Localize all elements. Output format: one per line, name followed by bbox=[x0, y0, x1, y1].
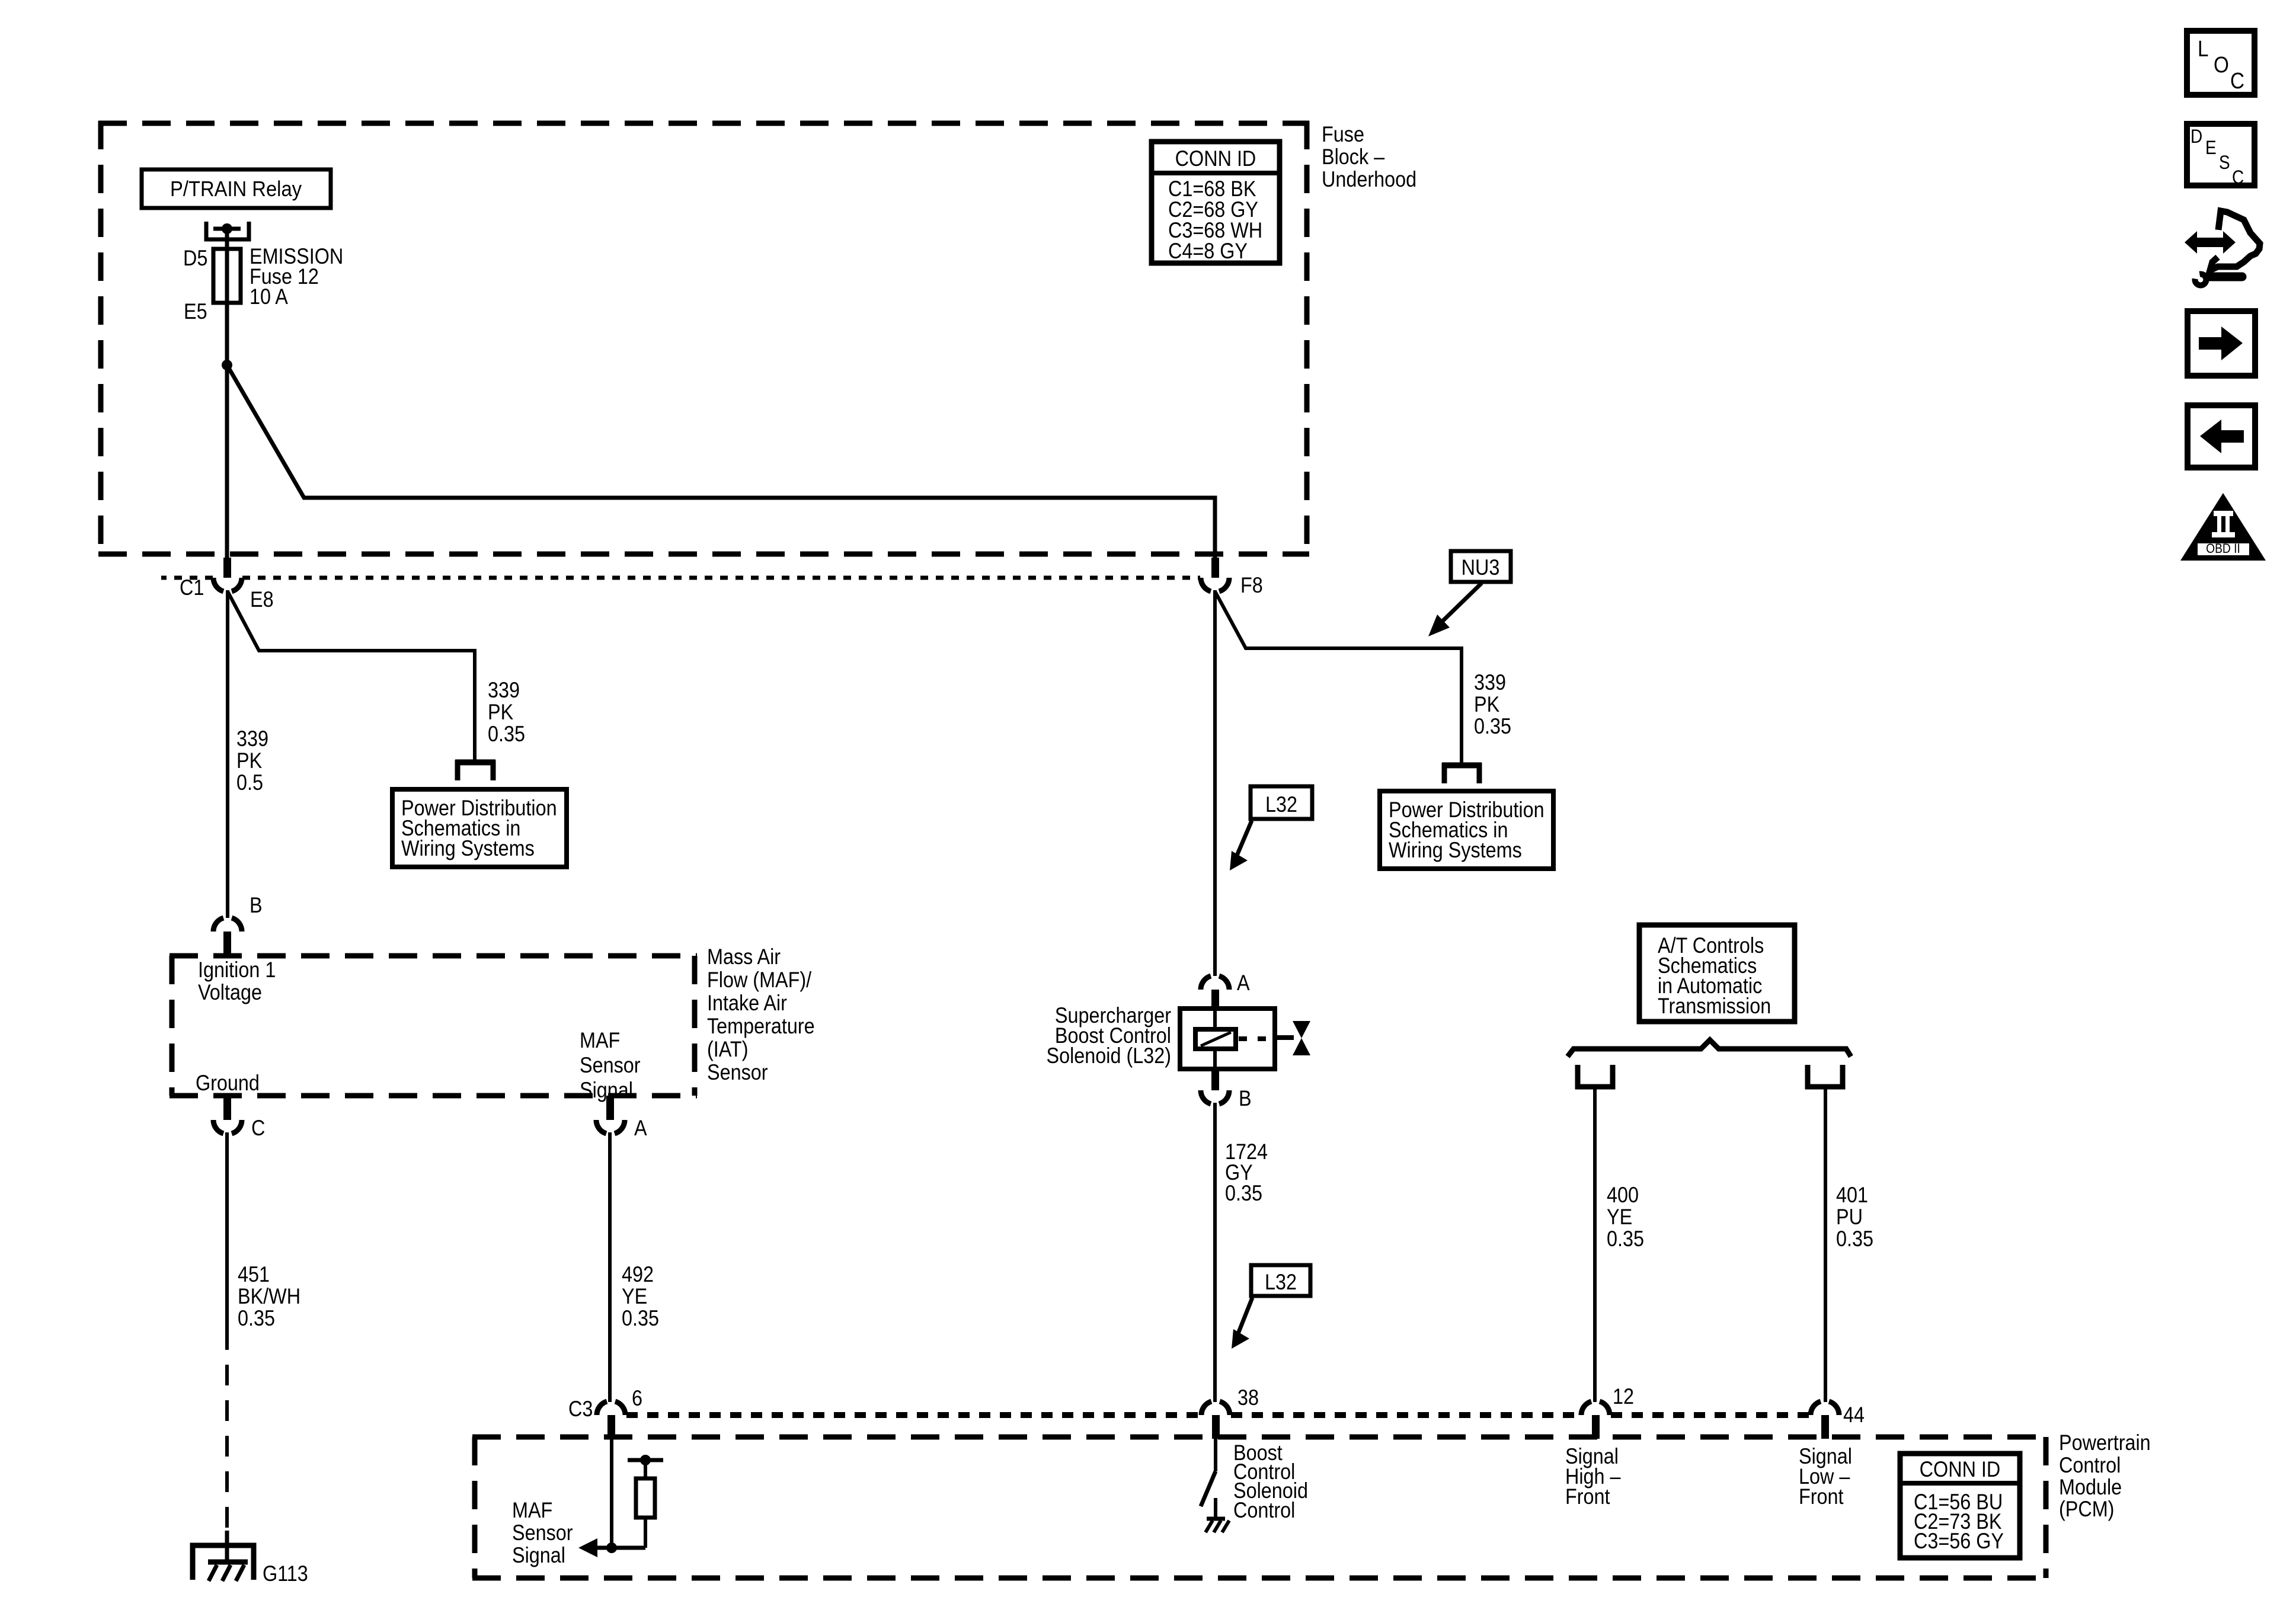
svg-text:Solenoid (L32): Solenoid (L32) bbox=[1047, 1044, 1171, 1068]
svg-text:NU3: NU3 bbox=[1462, 556, 1500, 580]
svg-text:Fuse: Fuse bbox=[1322, 123, 1364, 146]
svg-text:C3=56 GY: C3=56 GY bbox=[1914, 1529, 2004, 1553]
svg-text:401: 401 bbox=[1836, 1183, 1868, 1207]
svg-text:BK/WH: BK/WH bbox=[238, 1285, 300, 1308]
svg-text:Block –: Block – bbox=[1322, 145, 1385, 169]
svg-text:Signal: Signal bbox=[512, 1544, 565, 1567]
svg-text:Signal: Signal bbox=[580, 1078, 633, 1102]
svg-text:0.35: 0.35 bbox=[1607, 1227, 1644, 1251]
svg-text:S: S bbox=[2219, 152, 2230, 173]
svg-text:44: 44 bbox=[1843, 1403, 1865, 1427]
svg-text:E8: E8 bbox=[250, 588, 274, 612]
svg-text:Underhood: Underhood bbox=[1322, 168, 1416, 191]
svg-text:Front: Front bbox=[1565, 1485, 1610, 1509]
svg-text:B: B bbox=[1239, 1087, 1252, 1110]
svg-text:MAF: MAF bbox=[580, 1029, 620, 1052]
svg-text:CONN ID: CONN ID bbox=[1920, 1458, 2001, 1481]
svg-text:P/TRAIN Relay: P/TRAIN Relay bbox=[170, 178, 302, 201]
svg-text:38: 38 bbox=[1237, 1386, 1259, 1410]
svg-text:339: 339 bbox=[488, 678, 520, 702]
svg-text:MAF: MAF bbox=[512, 1499, 552, 1522]
svg-text:0.35: 0.35 bbox=[488, 722, 525, 746]
svg-text:Flow (MAF)/: Flow (MAF)/ bbox=[707, 968, 811, 992]
svg-text:0.35: 0.35 bbox=[1474, 715, 1511, 738]
svg-text:D5: D5 bbox=[183, 247, 207, 270]
svg-text:Wiring Systems: Wiring Systems bbox=[1389, 838, 1522, 862]
svg-text:PK: PK bbox=[488, 700, 513, 724]
svg-text:400: 400 bbox=[1607, 1183, 1639, 1207]
svg-text:12: 12 bbox=[1613, 1385, 1634, 1409]
svg-text:A: A bbox=[634, 1116, 647, 1140]
svg-text:Module: Module bbox=[2059, 1475, 2122, 1499]
svg-text:Control: Control bbox=[1233, 1499, 1295, 1522]
svg-text:0.5: 0.5 bbox=[236, 771, 263, 795]
svg-text:C: C bbox=[2230, 68, 2244, 94]
svg-text:YE: YE bbox=[1607, 1205, 1632, 1229]
svg-text:0.35: 0.35 bbox=[1836, 1227, 1873, 1251]
svg-text:D: D bbox=[2191, 126, 2202, 147]
svg-text:339: 339 bbox=[236, 727, 268, 751]
svg-text:C1: C1 bbox=[180, 576, 204, 600]
svg-text:(IAT): (IAT) bbox=[707, 1038, 748, 1061]
svg-text:Ignition 1: Ignition 1 bbox=[198, 958, 276, 982]
svg-text:E: E bbox=[2205, 137, 2217, 158]
svg-text:Front: Front bbox=[1799, 1485, 1844, 1509]
svg-text:C3: C3 bbox=[568, 1397, 593, 1421]
svg-text:E5: E5 bbox=[184, 300, 207, 324]
svg-text:A: A bbox=[1237, 971, 1250, 995]
svg-text:Wiring Systems: Wiring Systems bbox=[401, 837, 535, 860]
svg-text:O: O bbox=[2214, 52, 2229, 78]
svg-text:C: C bbox=[2232, 167, 2244, 188]
svg-text:451: 451 bbox=[238, 1263, 270, 1286]
svg-text:Temperature: Temperature bbox=[707, 1014, 815, 1038]
svg-text:Sensor: Sensor bbox=[512, 1521, 573, 1545]
svg-text:PK: PK bbox=[1474, 693, 1499, 716]
svg-text:B: B bbox=[250, 894, 263, 917]
svg-text:Transmission: Transmission bbox=[1658, 994, 1771, 1018]
svg-text:492: 492 bbox=[622, 1263, 654, 1286]
svg-text:0.35: 0.35 bbox=[622, 1307, 659, 1330]
svg-text:C: C bbox=[251, 1116, 265, 1140]
svg-text:Voltage: Voltage bbox=[198, 981, 262, 1004]
svg-text:G113: G113 bbox=[263, 1562, 308, 1586]
svg-text:(PCM): (PCM) bbox=[2059, 1497, 2114, 1521]
svg-text:PK: PK bbox=[236, 749, 262, 773]
svg-text:L32: L32 bbox=[1265, 793, 1297, 817]
svg-text:6: 6 bbox=[632, 1387, 642, 1410]
svg-text:PU: PU bbox=[1836, 1205, 1863, 1229]
svg-text:Control: Control bbox=[2059, 1454, 2121, 1477]
svg-text:Powertrain: Powertrain bbox=[2059, 1431, 2151, 1455]
svg-text:L: L bbox=[2198, 36, 2208, 62]
svg-text:L32: L32 bbox=[1265, 1270, 1297, 1294]
svg-text:CONN ID: CONN ID bbox=[1175, 147, 1256, 171]
svg-text:Mass Air: Mass Air bbox=[707, 945, 781, 969]
svg-text:Sensor: Sensor bbox=[580, 1054, 641, 1077]
svg-text:Ground: Ground bbox=[196, 1071, 260, 1095]
svg-text:0.35: 0.35 bbox=[238, 1307, 275, 1330]
svg-text:Intake Air: Intake Air bbox=[707, 991, 787, 1015]
svg-text:339: 339 bbox=[1474, 671, 1506, 694]
svg-text:C4=8 GY: C4=8 GY bbox=[1168, 239, 1248, 263]
svg-text:F8: F8 bbox=[1240, 574, 1263, 597]
svg-text:OBD II: OBD II bbox=[2206, 542, 2240, 556]
svg-text:0.35: 0.35 bbox=[1225, 1182, 1262, 1205]
svg-text:10 A: 10 A bbox=[250, 285, 289, 309]
svg-text:Sensor: Sensor bbox=[707, 1061, 768, 1084]
svg-text:YE: YE bbox=[622, 1285, 647, 1308]
